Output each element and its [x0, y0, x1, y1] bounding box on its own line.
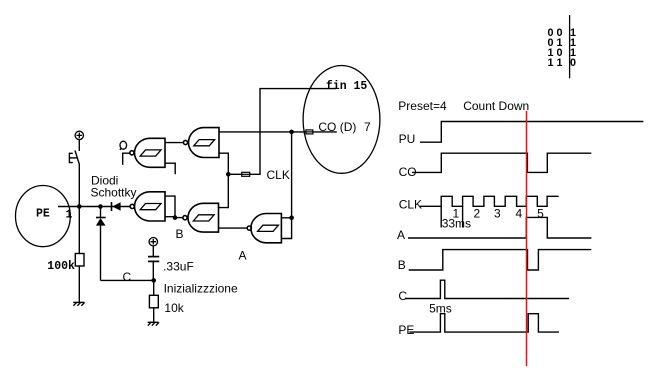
waveform A [408, 217, 591, 238]
svg-text:PU: PU [399, 132, 416, 146]
svg-text:Inizializzzione: Inizializzzione [164, 282, 238, 296]
svg-text:3: 3 [494, 207, 501, 221]
NAND gate U4 (middle, Schmitt) [183, 203, 219, 232]
capacitor C1 .33uF [148, 257, 159, 262]
NAND gate U3 (left, Schmitt) [130, 192, 165, 221]
power symbol +V top-left [75, 131, 83, 139]
node junction (U3 inputs) [173, 215, 178, 220]
wire: switch to PE node [78, 164, 80, 207]
node junction (CO net) [289, 130, 294, 135]
waveform CO [412, 153, 591, 172]
wire: +V to switch [78, 140, 80, 151]
wire: resistor 10k to ground [153, 308, 155, 323]
svg-text:C: C [398, 289, 407, 303]
svg-text:CLK: CLK [399, 197, 422, 211]
waveform C [405, 280, 569, 298]
label Q (gate U1 output) [120, 141, 127, 150]
wire: U1 top input to U2 output bubble [165, 142, 183, 144]
svg-text:B: B [398, 258, 406, 272]
wire: U3 input node to U4 output bubble [175, 217, 183, 219]
svg-text:1: 1 [66, 209, 73, 222]
wire: capacitor to node C [152, 261, 154, 280]
truth table divider line [569, 15, 571, 78]
svg-text:fin 15: fin 15 [326, 80, 368, 93]
svg-text:C: C [123, 270, 132, 284]
svg-text:1 1: 1 1 [548, 57, 563, 69]
diode D2 Schottky vertical (cathode up) [96, 207, 106, 281]
svg-text:5: 5 [537, 207, 544, 221]
wire: U1 output stub [123, 153, 130, 165]
node junction (diode branch) [98, 204, 103, 209]
cursor red line [526, 111, 528, 366]
svg-text:.33uF: .33uF [163, 259, 194, 273]
node junction C [151, 278, 156, 283]
PE source ellipse [16, 186, 71, 247]
svg-text:Count Down: Count Down [463, 99, 529, 113]
node junction (U5 inputs) [289, 216, 294, 221]
diode D1 Schottky horizontal (cathode left) [112, 202, 121, 211]
svg-text:PE: PE [36, 208, 50, 221]
svg-text:PE: PE [398, 323, 414, 337]
wire: U5 inputs tied to CO net [281, 132, 291, 239]
wire: CO pin inner stub [313, 131, 337, 133]
resistor 100k [75, 254, 84, 267]
measurement ticks 33ms [441, 206, 462, 227]
svg-text:CO (D): CO (D) [318, 120, 356, 134]
wire: U4 bottom input to U5 output bubble [219, 227, 248, 229]
node junction (switch branch) [77, 204, 82, 209]
svg-text:100k: 100k [47, 260, 75, 273]
svg-text:A: A [239, 249, 247, 263]
wire: U4 top input to CLK node [219, 174, 229, 207]
waveform B [409, 250, 592, 270]
wire: node C horizontal [101, 279, 154, 281]
wire: U1 bottom input stub [165, 163, 175, 174]
truth table column inputs [548, 27, 563, 69]
svg-text:A: A [397, 228, 405, 242]
clock cycle numbers [453, 207, 545, 221]
node junction CLK [226, 172, 231, 177]
wire: U2 bottom input to CLK node [219, 153, 228, 174]
svg-text:2: 2 [474, 207, 481, 221]
wire: resistor to ground [78, 266, 80, 302]
ground (below 10k) [148, 322, 159, 325]
ground (below 100k) [73, 302, 84, 305]
wire: CLK pin to counter pin 15 [250, 89, 336, 175]
svg-text:Schottky: Schottky [91, 186, 137, 200]
wire: U2 top input to CO pin [219, 131, 306, 133]
wire: node down to resistor 100k [78, 207, 80, 254]
wire: PE node horizontal [58, 206, 130, 208]
wire: +V to capacitor [152, 246, 154, 256]
svg-text:10k: 10k [164, 301, 184, 315]
counter ellipse (CD4029) [303, 66, 380, 174]
pin CLK (counter) [242, 172, 250, 176]
wire: CLK node to CLK pin [228, 173, 241, 175]
wire: node C to resistor 10k [153, 280, 155, 295]
svg-text:7: 7 [364, 120, 371, 134]
NAND gate U5 (right, Schmitt) [247, 214, 281, 243]
svg-text:Preset=4: Preset=4 [398, 99, 447, 113]
svg-text:4: 4 [516, 207, 523, 221]
svg-text:0: 0 [570, 57, 576, 69]
svg-text:CLK: CLK [267, 168, 290, 182]
NAND gate U1 (top left, Schmitt) [130, 138, 165, 167]
waveform PU [420, 122, 643, 143]
svg-text:1: 1 [453, 207, 460, 221]
NAND gate U2 (top middle, Schmitt) [183, 128, 219, 158]
pushbutton switch S1 [69, 151, 79, 164]
svg-text:B: B [176, 227, 184, 241]
waveform CLK [420, 196, 559, 206]
truth table column output [570, 27, 576, 69]
resistor 10k [149, 295, 158, 308]
wire: U3 inputs tied [165, 196, 175, 218]
waveform PE [409, 314, 559, 332]
pin 7 CO (D) [306, 130, 313, 134]
power symbol +V (cap branch) [149, 238, 157, 246]
